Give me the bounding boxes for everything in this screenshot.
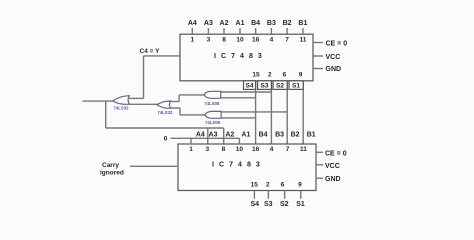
svg-text:8: 8: [222, 37, 226, 44]
svg-text:I C 7 4 8 3: I C 7 4 8 3: [212, 162, 261, 169]
U2 pin 16 (B4): [252, 132, 268, 153]
or-gate U5 74LS32: [113, 96, 129, 111]
wire output S2: [284, 191, 286, 199]
svg-text:VCC: VCC: [325, 163, 340, 170]
svg-text:16: 16: [252, 37, 260, 44]
svg-text:7: 7: [285, 37, 289, 44]
wire output S3: [267, 191, 269, 199]
svg-text:10: 10: [236, 146, 244, 153]
U2 pin GND stub: [316, 176, 341, 183]
node S1 box: [289, 81, 303, 90]
and-gate U4 74LS08: [205, 111, 221, 124]
svg-text:Carry: Carry: [102, 162, 119, 169]
svg-text:3: 3: [207, 37, 211, 44]
svg-text:3: 3: [205, 146, 209, 153]
U2 pin 3 (A3): [205, 132, 217, 153]
wire U6 to U3: [171, 95, 205, 102]
svg-text:1: 1: [189, 146, 193, 153]
svg-text:15: 15: [251, 182, 259, 189]
wire U6 to U4: [171, 108, 206, 115]
U2 pin 10 (A1): [236, 132, 251, 153]
svg-text:VCC: VCC: [326, 54, 341, 61]
svg-text:9: 9: [299, 72, 303, 79]
node S3 box: [258, 81, 272, 90]
svg-text:7: 7: [286, 146, 290, 153]
svg-text:A4: A4: [188, 20, 197, 27]
U1 carry out wire C4: [129, 56, 180, 99]
or-gate U6 74LS32: [157, 101, 173, 115]
svg-text:GND: GND: [326, 66, 342, 73]
svg-text:8: 8: [222, 146, 226, 153]
svg-text:B3: B3: [267, 20, 276, 27]
U2 carry out wire (ignored): [130, 165, 178, 167]
wire output S1: [300, 191, 302, 199]
svg-text:A3: A3: [204, 20, 213, 27]
svg-text:74LS08: 74LS08: [205, 120, 221, 125]
U1 pin 11 (B1): [298, 20, 307, 44]
node Carry ignored label: [100, 162, 124, 177]
svg-text:A2: A2: [220, 20, 229, 27]
node S2 box: [273, 81, 287, 90]
U1 pin GND stub: [313, 66, 341, 73]
wire U3 to S4: [221, 97, 256, 99]
svg-text:15: 15: [252, 72, 260, 79]
U1 pin VCC stub: [313, 54, 340, 61]
U1 pin CE stub: [313, 41, 347, 48]
svg-text:ignored: ignored: [100, 170, 124, 177]
svg-text:74LS08: 74LS08: [204, 101, 220, 106]
svg-text:A3: A3: [209, 132, 218, 139]
svg-text:I C 7 4 8 3: I C 7 4 8 3: [214, 53, 263, 60]
and-gate U3 74LS08: [204, 91, 220, 106]
U2 pin CE stub: [316, 151, 347, 158]
U1 pin 10 (A1): [236, 20, 245, 44]
svg-text:2: 2: [268, 72, 272, 79]
wire Y branch down: [106, 101, 224, 128]
svg-text:S1: S1: [296, 201, 305, 208]
U2 pin 4 (B3): [270, 132, 284, 153]
svg-text:B1: B1: [298, 20, 307, 27]
svg-text:B4: B4: [251, 20, 260, 27]
svg-text:B4: B4: [259, 132, 268, 139]
svg-text:CE = 0: CE = 0: [325, 151, 347, 158]
svg-text:4: 4: [270, 37, 274, 44]
wire U4 to S4: [221, 117, 256, 119]
svg-text:B3: B3: [275, 132, 284, 139]
IC U2 7483 body: [178, 144, 316, 191]
U2 pin 8 (A2): [222, 132, 235, 153]
svg-text:S1: S1: [292, 83, 300, 90]
wire U3 to S3: [221, 91, 272, 93]
U1 pin 1 (A4): [188, 20, 197, 44]
svg-text:6: 6: [283, 72, 287, 79]
svg-text:9: 9: [298, 182, 302, 189]
svg-text:A1: A1: [236, 20, 245, 27]
svg-text:B1: B1: [307, 132, 316, 139]
wire S2 to U2 B2: [286, 81, 288, 144]
svg-text:16: 16: [252, 146, 260, 153]
U1 pin 3 (A3): [204, 20, 213, 44]
U1 pin 8 (A2): [220, 20, 229, 44]
svg-text:6: 6: [281, 182, 285, 189]
U1 pin 16 (B4): [251, 20, 260, 44]
wire U5 output to U6: [129, 103, 157, 105]
svg-text:GND: GND: [325, 176, 341, 183]
svg-text:A1: A1: [241, 132, 250, 139]
wire 0 to U2 pins 1 and 10: [171, 138, 240, 144]
svg-text:74LS32: 74LS32: [157, 110, 173, 115]
svg-text:74LS32: 74LS32: [114, 106, 130, 111]
svg-text:S3: S3: [264, 201, 273, 208]
IC U1 7483 body: [180, 34, 313, 81]
svg-text:0: 0: [164, 135, 168, 142]
svg-text:2: 2: [266, 182, 270, 189]
U1 pin 7 (B2): [283, 20, 292, 44]
wire Y output stub: [83, 100, 114, 102]
wire S4 to U2 B4: [255, 81, 257, 144]
svg-text:11: 11: [299, 37, 306, 44]
svg-text:10: 10: [236, 37, 244, 44]
wire Y to U2 pin 3: [207, 128, 209, 144]
wire output S4: [253, 191, 255, 199]
wire U4 to S2: [221, 111, 287, 113]
U2 pin 11 (B1): [300, 132, 316, 153]
svg-text:S2: S2: [276, 83, 284, 90]
U2 pin 7 (B2): [286, 132, 300, 153]
svg-text:B2: B2: [291, 132, 300, 139]
wire Y to U2 pin 8: [223, 128, 225, 144]
svg-text:S4: S4: [246, 83, 254, 90]
U1 pin 4 (B3): [267, 20, 276, 44]
svg-text:4: 4: [270, 146, 274, 153]
svg-text:S2: S2: [280, 201, 289, 208]
node S4 box: [244, 81, 256, 90]
svg-text:S4: S4: [251, 201, 260, 208]
svg-text:B2: B2: [283, 20, 292, 27]
svg-text:S3: S3: [261, 83, 269, 90]
wire S1 to U2 B1: [302, 81, 304, 144]
svg-text:1: 1: [190, 37, 194, 44]
svg-text:11: 11: [300, 146, 307, 153]
svg-text:A2: A2: [225, 132, 234, 139]
wire S3 to U2 B3: [270, 81, 272, 144]
svg-text:C4 = Y: C4 = Y: [140, 48, 161, 55]
svg-text:CE = 0: CE = 0: [326, 41, 348, 48]
U2 pin VCC stub: [316, 163, 340, 170]
svg-text:A4: A4: [196, 132, 205, 139]
U2 pin 1 (A4): [189, 132, 205, 153]
